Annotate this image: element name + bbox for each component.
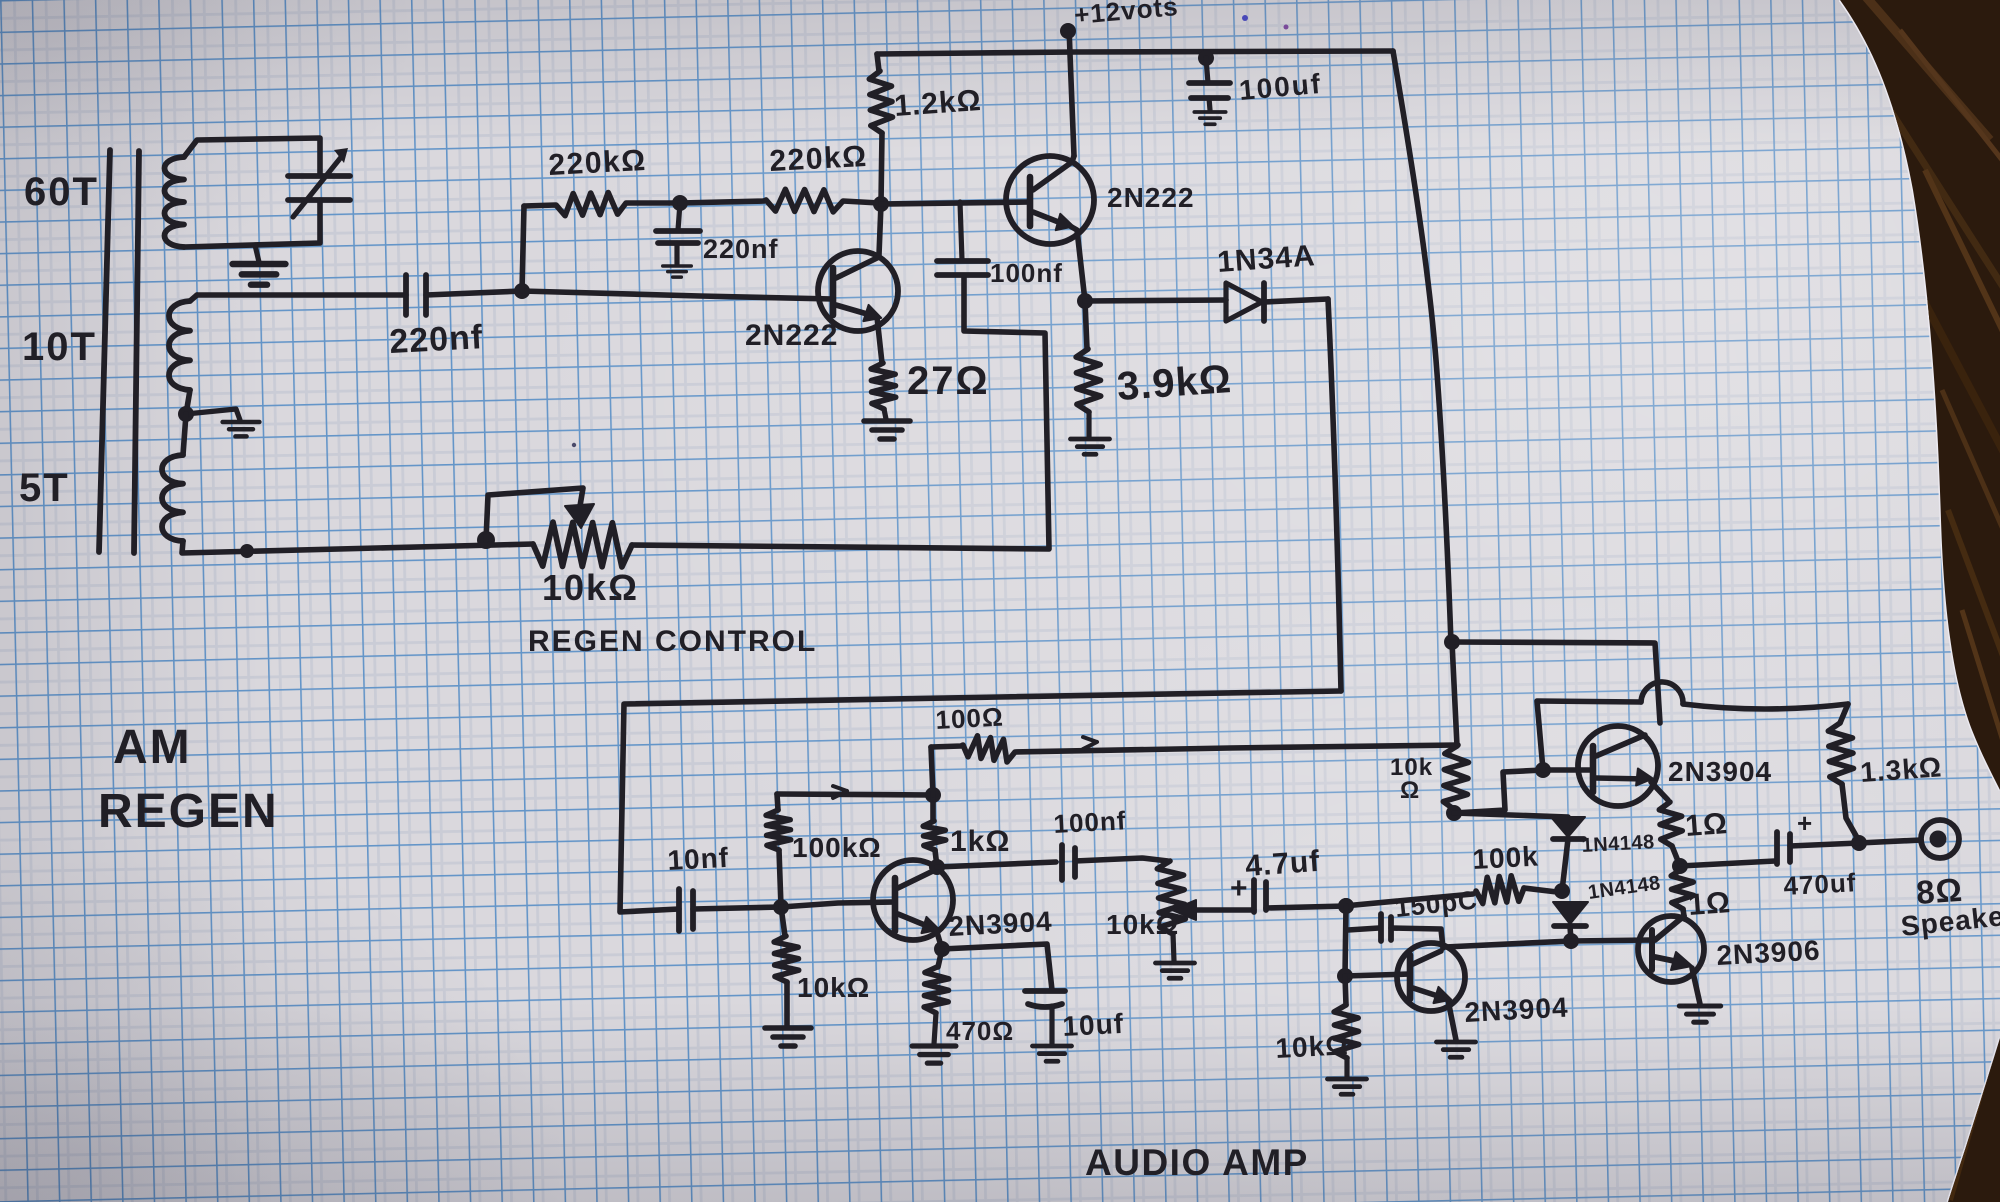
svg-text:+: + [1230,872,1249,905]
svg-text:Ω: Ω [1400,777,1420,804]
svg-text:220nf: 220nf [703,234,779,264]
svg-text:10kΩ: 10kΩ [797,972,870,1003]
svg-text:100kΩ: 100kΩ [792,832,882,863]
svg-text:1N4148: 1N4148 [1581,831,1655,857]
svg-text:2N222: 2N222 [745,319,838,352]
svg-text:470Ω: 470Ω [946,1016,1014,1046]
svg-text:60T: 60T [24,170,99,214]
svg-text:2N3904: 2N3904 [948,906,1054,942]
svg-text:10nf: 10nf [667,842,730,876]
svg-text:2N3904: 2N3904 [1668,756,1772,787]
svg-text:220nf: 220nf [388,318,484,361]
svg-text:10T: 10T [22,325,97,369]
svg-text:2N3906: 2N3906 [1716,935,1822,971]
svg-text:100k: 100k [1472,841,1540,875]
svg-text:5T: 5T [19,466,70,510]
svg-text:REGEN: REGEN [98,785,279,838]
svg-text:220kΩ: 220kΩ [548,144,648,182]
svg-text:2N3904: 2N3904 [1464,992,1570,1028]
svg-text:10kΩ: 10kΩ [542,567,639,608]
svg-text:220kΩ: 220kΩ [769,140,869,178]
svg-text:27Ω: 27Ω [907,359,990,403]
svg-text:470uf: 470uf [1783,867,1857,901]
svg-text:10kΩ: 10kΩ [1106,909,1179,940]
svg-text:2N222: 2N222 [1107,182,1195,213]
svg-text:4.7uf: 4.7uf [1244,845,1321,883]
svg-text:1.2kΩ: 1.2kΩ [893,84,983,123]
svg-text:1kΩ: 1kΩ [950,825,1010,858]
svg-text:+: + [1797,808,1813,838]
svg-text:10uf: 10uf [1062,1008,1125,1042]
svg-text:REGEN CONTROL: REGEN CONTROL [528,625,817,658]
svg-text:1Ω: 1Ω [1684,807,1729,843]
svg-text:1.3kΩ: 1.3kΩ [1859,751,1943,788]
svg-text:10kΩ: 10kΩ [1275,1029,1350,1064]
svg-text:100nf: 100nf [1053,805,1127,839]
svg-text:1Ω: 1Ω [1687,886,1732,922]
svg-text:1N34A: 1N34A [1216,239,1316,279]
svg-text:AUDIO AMP: AUDIO AMP [1085,1142,1309,1183]
svg-text:100Ω: 100Ω [935,701,1005,735]
svg-text:100nf: 100nf [990,258,1063,288]
svg-text:AM: AM [113,721,192,774]
svg-text:3.9kΩ: 3.9kΩ [1116,357,1234,409]
